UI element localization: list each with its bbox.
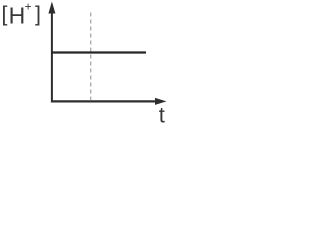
x-axis arrowhead: [155, 98, 167, 105]
svg-text:]: ]: [35, 2, 41, 26]
svg-text:[: [: [2, 2, 8, 26]
x-axis: [51, 100, 158, 102]
svg-text:+: +: [25, 0, 32, 14]
curve: constant [H+] line: [51, 51, 146, 53]
y-axis: [51, 10, 53, 103]
y-axis arrowhead: [48, 2, 55, 14]
dashed vertical line: [90, 13, 92, 101]
svg-text:t: t: [159, 102, 165, 127]
svg-text:H: H: [9, 3, 26, 29]
